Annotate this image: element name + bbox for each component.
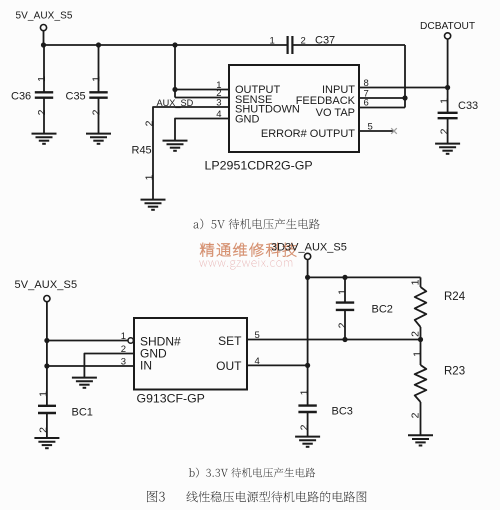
svg-text:1: 1 <box>37 391 49 397</box>
svg-text:1: 1 <box>90 76 102 82</box>
svg-text:C35: C35 <box>66 91 86 103</box>
ground under C35 <box>86 134 111 144</box>
svg-text:2: 2 <box>409 331 421 337</box>
node junction 3D3V rail <box>305 275 310 280</box>
pin number 4 (U2) <box>255 356 260 367</box>
watermark CJK text <box>200 243 296 257</box>
pin number 4 (U1) <box>216 109 221 120</box>
pin number 7 (U1) <box>364 89 369 100</box>
node junction SHDN branch <box>44 338 49 343</box>
capacitor C33 <box>438 98 479 143</box>
svg-text:2: 2 <box>90 109 102 115</box>
figure title 图3 <box>147 491 367 503</box>
svg-text:C33: C33 <box>458 100 478 112</box>
ground under BC3 <box>295 437 320 447</box>
node junction OUT <box>305 363 310 368</box>
ground under C33 <box>435 144 460 154</box>
ground under R45 <box>141 200 166 210</box>
svg-text:1: 1 <box>409 279 421 285</box>
svg-text:DCBATOUT: DCBATOUT <box>420 21 475 32</box>
wire 5V rail <box>44 44 288 46</box>
ground under C36 <box>32 134 57 144</box>
pin number 8 (U1) <box>364 78 369 89</box>
svg-text:LP2951CDR2G-GP: LP2951CDR2G-GP <box>205 159 313 173</box>
svg-text:1: 1 <box>411 351 423 357</box>
svg-text:2: 2 <box>336 322 348 328</box>
svg-text:3: 3 <box>216 98 221 109</box>
caption a) 5V standby voltage circuit <box>194 219 320 230</box>
wire pin7 FEEDBACK <box>359 97 405 99</box>
node junction BC2 bottom <box>342 337 347 342</box>
wire pin5 SET <box>247 339 421 341</box>
wire pin4 GND <box>175 119 229 141</box>
node junction IC branch <box>172 42 177 47</box>
svg-text:1: 1 <box>144 174 156 180</box>
svg-text:2: 2 <box>36 109 48 115</box>
svg-text:VO TAP: VO TAP <box>316 107 355 119</box>
svg-text:2: 2 <box>37 427 49 433</box>
capacitor C37 <box>270 35 406 55</box>
inverter bubble pin1 <box>128 338 133 343</box>
resistor R45 <box>132 120 156 180</box>
node junction DCBATOUT/pin8 <box>445 85 450 90</box>
wire pin3 SHUTDOWN <box>153 107 229 199</box>
net 5V_AUX_S5 (top) <box>16 10 73 45</box>
node junction IN branch <box>44 363 49 368</box>
node junction C35 <box>96 42 101 47</box>
svg-text:IN: IN <box>140 359 152 373</box>
svg-text:2: 2 <box>301 36 306 47</box>
capacitor C36 <box>11 45 53 133</box>
svg-text:C36: C36 <box>11 91 31 103</box>
U2 part label G913CF-GP <box>137 392 205 406</box>
pin number 3 (U1) <box>216 98 221 109</box>
svg-text:ERROR# OUTPUT: ERROR# OUTPUT <box>261 128 355 140</box>
svg-text:OUT: OUT <box>216 359 242 373</box>
regulator U2 G913CF-GP body <box>134 318 247 390</box>
node junction BC2 top <box>342 275 347 280</box>
pin number 2 (U1) <box>216 88 221 99</box>
net AUX_SD <box>157 98 194 108</box>
svg-text:R45: R45 <box>132 145 152 157</box>
capacitor BC1 <box>37 391 93 437</box>
svg-text:2: 2 <box>121 344 126 355</box>
svg-text:R23: R23 <box>444 365 465 377</box>
ground under R23 <box>408 435 433 445</box>
node junction pin1 branch <box>172 87 177 92</box>
pin number 5 (U2) <box>255 330 260 341</box>
svg-text:1: 1 <box>121 331 126 342</box>
capacitor BC3 <box>298 389 353 436</box>
svg-text:GND: GND <box>235 114 260 126</box>
resistor R24 <box>409 277 465 339</box>
wire pin6 VO TAP <box>359 107 405 109</box>
wire feedback drop <box>404 45 406 108</box>
svg-text:2: 2 <box>298 424 310 430</box>
svg-text:1: 1 <box>336 289 348 295</box>
capacitor BC2 <box>336 277 393 339</box>
capacitor C35 <box>66 45 108 133</box>
svg-text:5V_AUX_S5: 5V_AUX_S5 <box>15 279 78 291</box>
svg-text:SET: SET <box>218 334 242 348</box>
watermark www.gzweix.com <box>199 258 292 270</box>
node junction rail-left <box>41 42 46 47</box>
node junction R24/R23/SET <box>418 337 423 342</box>
wire pin8 INPUT <box>359 87 448 89</box>
ground under pin2 <box>72 378 97 388</box>
ground under pin4 <box>163 141 188 151</box>
op-amp U1 LP2951CDR2G-GP body <box>229 65 359 152</box>
net DCBATOUT <box>420 21 475 112</box>
svg-text:4: 4 <box>216 109 221 120</box>
svg-text:1: 1 <box>36 76 48 82</box>
svg-text:INPUT: INPUT <box>322 84 355 96</box>
pin number 3 (U2) <box>121 356 126 367</box>
pin number 2 (U2) <box>121 344 126 355</box>
svg-text:R24: R24 <box>444 291 466 303</box>
caption b) 3.3V standby voltage circuit <box>189 468 315 478</box>
svg-text:G913CF-GP: G913CF-GP <box>137 392 205 406</box>
svg-text:3: 3 <box>121 356 126 367</box>
net 5V_AUX_S5 (bottom) <box>15 279 78 405</box>
ground under BC1 <box>34 438 59 448</box>
pin number 1 (U2) <box>121 331 126 342</box>
svg-text:BC3: BC3 <box>332 405 353 417</box>
svg-text:2: 2 <box>439 128 451 134</box>
svg-text:BC1: BC1 <box>72 407 93 419</box>
svg-text:1: 1 <box>298 389 310 395</box>
svg-text:C37: C37 <box>315 35 335 47</box>
svg-text:2: 2 <box>144 120 156 126</box>
svg-text:BC2: BC2 <box>372 303 393 315</box>
wire pin4 OUT <box>247 364 308 366</box>
svg-text:FEEDBACK: FEEDBACK <box>296 95 356 107</box>
svg-text:1: 1 <box>439 98 451 104</box>
pin number 1 (U1) <box>216 80 221 91</box>
wire to SHDN# bubble <box>47 340 128 342</box>
wire pin2 GND <box>84 354 134 378</box>
wire to IN pin3 <box>47 365 134 367</box>
svg-text:3D3V_AUX_S5: 3D3V_AUX_S5 <box>271 242 347 254</box>
svg-text:5V_AUX_S5: 5V_AUX_S5 <box>16 10 73 21</box>
wire 3.3V rail <box>308 276 421 278</box>
node junction pin7 <box>402 95 407 100</box>
net 3D3V_AUX_S5 <box>271 242 347 406</box>
pin number 6 (U1) <box>364 98 369 109</box>
resistor R23 <box>409 340 465 435</box>
wire pin5 ERROR# OUTPUT no-connect <box>359 128 397 134</box>
wire branch to pins 1-2 <box>175 45 229 98</box>
pin number 5 (U1) <box>368 122 373 133</box>
svg-text:2: 2 <box>409 412 421 418</box>
svg-text:1: 1 <box>270 36 275 47</box>
U1 part label LP2951CDR2G-GP <box>205 159 313 173</box>
